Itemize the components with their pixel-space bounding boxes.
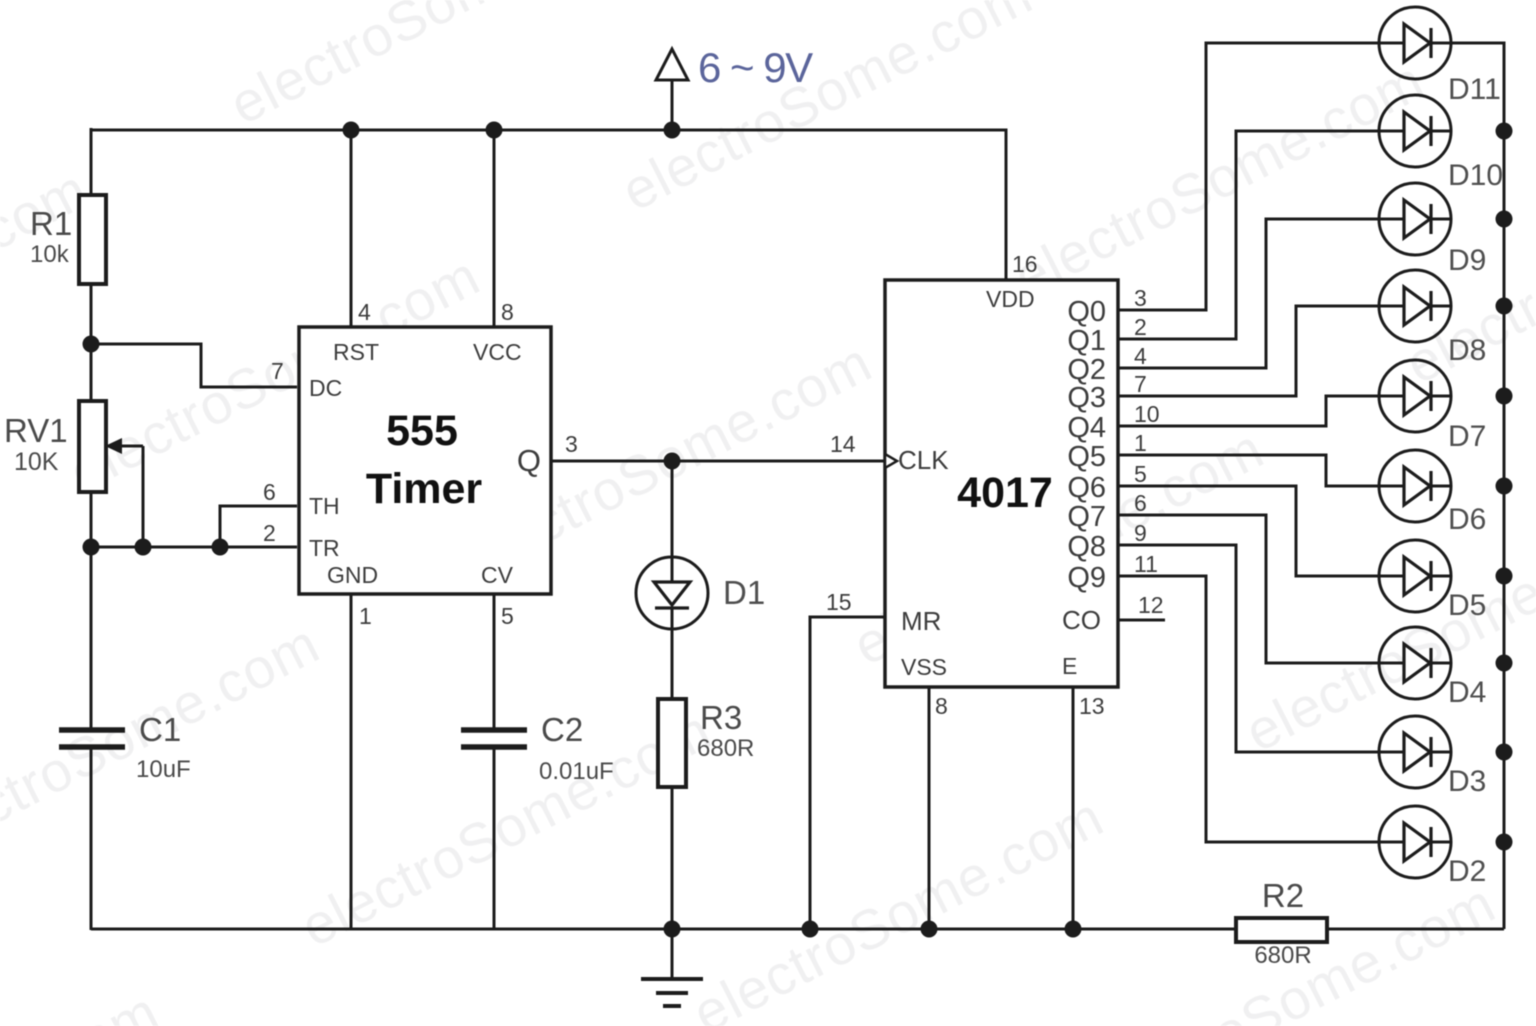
svg-text:CO: CO <box>1062 605 1101 635</box>
svg-text:CV: CV <box>481 562 514 588</box>
wire TR net horizontal <box>91 546 297 549</box>
pin label GND <box>327 562 378 588</box>
label Timer <box>366 465 483 513</box>
op-amp 555 timer IC U1 <box>299 327 551 594</box>
label D6 <box>1448 503 1486 536</box>
svg-text:12: 12 <box>1138 592 1164 618</box>
pin label MR <box>901 606 941 636</box>
svg-text:680R: 680R <box>697 735 754 762</box>
wire Q output to CLK <box>551 460 885 463</box>
svg-text:Q1: Q1 <box>1067 325 1106 357</box>
node right rail / D8 junction <box>1496 298 1513 315</box>
pin number 1 <box>359 603 372 629</box>
wire C1 to bottom rail <box>90 747 93 930</box>
pin number 11 <box>1134 551 1158 577</box>
LED D7 <box>1379 360 1451 432</box>
pin number 12 <box>1138 592 1164 618</box>
svg-text:D6: D6 <box>1448 503 1486 536</box>
svg-text:electroSome.com: electroSome.com <box>1467 957 1536 1026</box>
pin label Q <box>517 443 541 478</box>
pin number 15 <box>826 589 852 615</box>
label R2 <box>1262 877 1304 914</box>
svg-text:5: 5 <box>501 603 514 629</box>
node top rail / RST junction <box>343 122 360 139</box>
svg-text:14: 14 <box>830 431 856 457</box>
wire Q5 pin1 to LED <box>1118 455 1379 486</box>
wire Q3 pin7 to LED <box>1118 306 1379 396</box>
svg-text:R2: R2 <box>1262 877 1304 914</box>
svg-text:555: 555 <box>386 407 458 455</box>
pin number 6 <box>1134 490 1147 516</box>
svg-text:VDD: VDD <box>986 286 1035 312</box>
capacitor C2 <box>461 730 527 747</box>
LED D2 <box>1379 806 1451 878</box>
svg-text:15: 15 <box>826 589 852 615</box>
svg-text:Q: Q <box>517 443 541 478</box>
label D9 <box>1448 244 1486 277</box>
pin number 4 <box>1134 343 1147 369</box>
pin label TH <box>309 493 340 519</box>
label C2 <box>541 711 583 748</box>
pin number 2 <box>263 520 276 546</box>
label D2 <box>1448 855 1486 888</box>
pin number 16 <box>1012 251 1038 277</box>
wire Q2 pin4 to LED <box>1118 219 1379 368</box>
label R3 value 680R <box>697 735 754 762</box>
svg-text:8: 8 <box>501 299 514 325</box>
pin number 10 <box>1134 401 1160 427</box>
svg-text:2: 2 <box>263 520 276 546</box>
svg-text:Q0: Q0 <box>1067 296 1106 328</box>
capacitor C1 <box>59 730 125 747</box>
svg-text:D1: D1 <box>723 574 765 611</box>
wire Q4 pin10 to LED <box>1118 396 1379 426</box>
LED D1 <box>636 557 708 699</box>
wire Q8 pin9 to LED <box>1118 545 1379 752</box>
LED D6 <box>1379 450 1451 522</box>
svg-text:electroSome.com: electroSome.com <box>612 0 1042 223</box>
ground symbol <box>641 929 703 1006</box>
svg-text:Q8: Q8 <box>1067 531 1106 563</box>
svg-text:D2: D2 <box>1448 855 1486 888</box>
svg-text:8: 8 <box>935 693 948 719</box>
svg-text:D3: D3 <box>1448 765 1486 798</box>
pin number 3 <box>565 431 578 457</box>
LED D8 <box>1379 270 1451 342</box>
svg-text:4017: 4017 <box>957 469 1053 517</box>
svg-text:D8: D8 <box>1448 334 1486 367</box>
label 555 <box>386 407 458 455</box>
potentiometer RV1 body <box>79 401 106 492</box>
label D8 <box>1448 334 1486 367</box>
wire Q node down to D1 <box>671 461 674 560</box>
pin label Q8 <box>1067 531 1106 563</box>
wire R3 to bottom rail <box>671 787 674 930</box>
pin label VDD <box>986 286 1035 312</box>
svg-text:10k: 10k <box>30 241 70 268</box>
wire Q7 pin6 to LED <box>1118 515 1379 663</box>
label D7 <box>1448 420 1486 453</box>
svg-text:D11: D11 <box>1448 73 1501 106</box>
svg-text:Q5: Q5 <box>1067 441 1106 473</box>
pin number 3 <box>1134 285 1147 311</box>
pin label Q0 <box>1067 296 1106 328</box>
pin label Q4 <box>1067 412 1106 444</box>
label D5 <box>1448 589 1486 622</box>
label D10 <box>1448 159 1503 192</box>
label 6 ~ 9V <box>698 44 813 91</box>
node right rail / D5 junction <box>1496 568 1513 585</box>
wire Q6 pin5 to LED <box>1118 486 1379 576</box>
LED D10 <box>1379 95 1451 167</box>
wire 555 pin5 CV to C2 <box>493 594 496 729</box>
wire C2 to bottom rail <box>493 747 496 930</box>
label R3 <box>700 699 742 736</box>
svg-text:TH: TH <box>309 493 340 519</box>
LED D9 <box>1379 183 1451 255</box>
node Q output / D1 junction <box>664 453 681 470</box>
pin number 7 <box>1134 371 1147 397</box>
resistor R1 <box>79 195 106 284</box>
pin label Q5 <box>1067 441 1106 473</box>
svg-text:RST: RST <box>333 339 379 365</box>
svg-text:9: 9 <box>1134 520 1147 546</box>
label RV1 value 10K <box>14 448 59 476</box>
node right rail / D10 junction <box>1496 123 1513 140</box>
pin number 2 <box>1134 314 1147 340</box>
wire 555 pin4 RST to rail <box>350 130 353 327</box>
svg-text:3: 3 <box>565 431 578 457</box>
clock input triangle <box>885 454 897 468</box>
svg-text:3: 3 <box>1134 285 1147 311</box>
pin number 6 <box>263 479 276 505</box>
resistor R3 <box>658 699 686 787</box>
label C1 <box>139 711 181 748</box>
wire top VCC rail <box>91 128 1006 196</box>
pin label Q6 <box>1067 472 1106 504</box>
node right rail / D2 junction <box>1496 834 1513 851</box>
resistor R2 <box>1236 918 1327 942</box>
node right rail / D7 junction <box>1496 388 1513 405</box>
LED D3 <box>1379 716 1451 788</box>
svg-text:electroSome.com: electroSome.com <box>220 0 650 136</box>
node top rail / supply junction <box>664 122 681 139</box>
pin number 8 <box>501 299 514 325</box>
pin label Q2 <box>1067 354 1106 386</box>
wire DC branch <box>91 344 297 387</box>
LED D4 <box>1379 627 1451 699</box>
node bottom rail / MR junction <box>802 921 819 938</box>
LED D11 <box>1379 7 1451 79</box>
label 4017 <box>957 469 1053 517</box>
pin label DC <box>309 375 342 401</box>
node bottom rail / E junction <box>1065 921 1082 938</box>
svg-text:1: 1 <box>359 603 372 629</box>
wire TR node down to C1 <box>90 547 93 729</box>
pin number 13 <box>1079 693 1105 719</box>
label D11 <box>1448 73 1501 106</box>
pin label RST <box>333 339 379 365</box>
wire Q0 pin3 to LED <box>1118 43 1379 310</box>
pin number 9 <box>1134 520 1147 546</box>
pin label Q7 <box>1067 501 1106 533</box>
pin label Q9 <box>1067 562 1106 594</box>
potentiometer RV1 wiper arrow <box>105 438 143 547</box>
wire R1 bottom to DC node <box>90 284 93 402</box>
svg-text:VCC: VCC <box>473 339 522 365</box>
svg-text:4: 4 <box>1134 343 1147 369</box>
svg-text:Q7: Q7 <box>1067 501 1106 533</box>
svg-text:C1: C1 <box>139 711 181 748</box>
svg-text:electroSome.com: electroSome.com <box>683 784 1113 1026</box>
pin number 7 <box>271 358 284 384</box>
pin number 5 <box>1134 461 1147 487</box>
svg-text:D9: D9 <box>1448 244 1486 277</box>
svg-text:Timer: Timer <box>366 465 483 513</box>
svg-text:MR: MR <box>901 606 941 636</box>
pin label CLK <box>898 445 949 475</box>
svg-text:E: E <box>1062 653 1077 679</box>
node right rail / D4 junction <box>1496 655 1513 672</box>
svg-text:electroSome.com: electroSome.com <box>1004 48 1434 309</box>
svg-text:Q4: Q4 <box>1067 412 1106 444</box>
svg-text:D10: D10 <box>1448 159 1503 192</box>
svg-text:680R: 680R <box>1254 942 1311 969</box>
pin number 5 <box>501 603 514 629</box>
svg-text:7: 7 <box>1134 371 1147 397</box>
pin number 14 <box>830 431 856 457</box>
svg-text:11: 11 <box>1134 551 1158 577</box>
counter 4017 IC U2 <box>885 280 1118 687</box>
svg-text:6 ~ 9V: 6 ~ 9V <box>698 44 813 91</box>
wire Q1 pin2 to LED <box>1118 131 1379 339</box>
wire rail to VDD pin16 <box>672 130 1006 280</box>
svg-text:C2: C2 <box>541 711 583 748</box>
svg-text:4: 4 <box>358 299 371 325</box>
pin label VSS <box>901 654 947 680</box>
label C2 value 0.01uF <box>539 758 614 785</box>
wire bottom ground rail <box>91 928 1504 931</box>
wire MR to bottom rail <box>810 617 885 929</box>
svg-text:CLK: CLK <box>898 445 949 475</box>
label D4 <box>1448 676 1486 709</box>
node right rail / D3 junction <box>1496 744 1513 761</box>
svg-text:6: 6 <box>263 479 276 505</box>
pin label Q3 <box>1067 382 1106 414</box>
svg-text:10uF: 10uF <box>136 756 191 783</box>
svg-text:7: 7 <box>271 358 284 384</box>
node right rail / D9 junction <box>1496 211 1513 228</box>
node top rail / VCC junction <box>486 122 503 139</box>
pin label VCC <box>473 339 522 365</box>
node bottom rail / VSS junction <box>921 921 938 938</box>
pin number 4 <box>358 299 371 325</box>
svg-text:electroSome.com: electroSome.com <box>1235 503 1536 764</box>
node bottom rail / R3 junction <box>664 921 681 938</box>
svg-text:1: 1 <box>1134 430 1147 456</box>
LED D5 <box>1379 540 1451 612</box>
svg-text:10K: 10K <box>14 448 59 476</box>
svg-text:VSS: VSS <box>901 654 947 680</box>
label RV1 <box>4 412 68 449</box>
svg-text:16: 16 <box>1012 251 1038 277</box>
wire 555 pin1 GND to bottom rail <box>350 594 353 930</box>
wire 555 pin8 VCC to rail <box>493 130 496 327</box>
svg-text:GND: GND <box>327 562 378 588</box>
svg-text:R3: R3 <box>700 699 742 736</box>
wire E pin13 to bottom rail <box>1072 687 1075 929</box>
wire CO stub pin12 <box>1118 619 1165 622</box>
svg-text:0.01uF: 0.01uF <box>539 758 614 785</box>
svg-text:10: 10 <box>1134 401 1160 427</box>
power supply flag 6~9V <box>656 49 688 130</box>
label R2 value 680R <box>1254 942 1311 969</box>
svg-text:Q9: Q9 <box>1067 562 1106 594</box>
wire TH branch <box>220 506 297 547</box>
wire RV1 bottom to TR node <box>90 490 93 547</box>
node TR net left junction <box>83 539 100 556</box>
wire right cathode rail <box>1451 43 1504 929</box>
svg-text:D5: D5 <box>1448 589 1486 622</box>
svg-text:5: 5 <box>1134 461 1147 487</box>
svg-text:electroSome.com: electroSome.com <box>0 979 169 1026</box>
pin number 8 VSS <box>935 693 948 719</box>
svg-text:2: 2 <box>1134 314 1147 340</box>
label R1 <box>30 205 72 242</box>
svg-text:6: 6 <box>1134 490 1147 516</box>
label D1 <box>723 574 765 611</box>
svg-text:TR: TR <box>309 535 340 561</box>
pin label CO <box>1062 605 1101 635</box>
node right rail / D6 junction <box>1496 478 1513 495</box>
svg-text:Q3: Q3 <box>1067 382 1106 414</box>
pin label CV <box>481 562 514 588</box>
pin label Q1 <box>1067 325 1106 357</box>
svg-text:DC: DC <box>309 375 342 401</box>
svg-text:D7: D7 <box>1448 420 1486 453</box>
node TR net TH junction <box>212 539 229 556</box>
label R1 value 10k <box>30 241 70 268</box>
svg-text:Q6: Q6 <box>1067 472 1106 504</box>
svg-text:13: 13 <box>1079 693 1105 719</box>
svg-text:electroSome.com: electroSome.com <box>0 0 258 50</box>
label D3 <box>1448 765 1486 798</box>
wire Q9 pin11 to LED <box>1118 576 1379 842</box>
pin number 1 <box>1134 430 1147 456</box>
label C1 value 10uF <box>136 756 191 783</box>
svg-text:RV1: RV1 <box>4 412 68 449</box>
svg-text:R1: R1 <box>30 205 72 242</box>
node R1/RV1/DC junction <box>83 336 100 353</box>
node TR net wiper junction <box>135 539 152 556</box>
pin label E <box>1062 653 1077 679</box>
pin label TR <box>309 535 340 561</box>
wire VSS pin8 to bottom rail <box>928 687 931 929</box>
svg-text:D4: D4 <box>1448 676 1486 709</box>
